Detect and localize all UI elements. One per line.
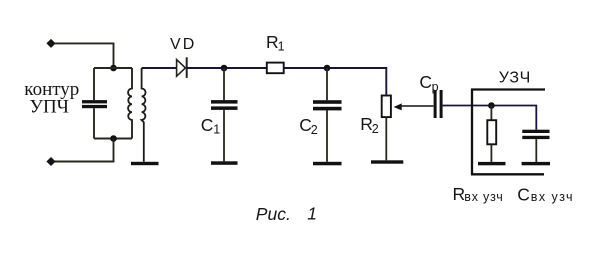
wire tank loop left upper: [93, 68, 95, 100]
svg-text:УЗЧ: УЗЧ: [499, 70, 532, 87]
node A junction dot: [110, 65, 117, 72]
wire R1 to corner and down to R2: [284, 68, 387, 96]
capacitor Cвх узч: [522, 130, 549, 139]
svg-text:2: 2: [311, 123, 318, 137]
capacitor tank (контур УПЧ): [82, 100, 107, 108]
wire node B to bottom terminal: [55, 139, 114, 162]
terminal input top: [46, 39, 55, 48]
svg-text:вх узч: вх узч: [531, 190, 574, 204]
ground bar C2: [313, 162, 342, 166]
resistor R1: [267, 63, 284, 74]
wire input top to node A: [55, 43, 114, 66]
svg-text:УПЧ: УПЧ: [30, 97, 70, 118]
svg-text:VD: VD: [170, 36, 196, 53]
node C1-top junction dot: [221, 65, 228, 72]
svg-text:р: р: [432, 80, 439, 94]
ground bar secondary: [131, 162, 159, 165]
svg-text:вх узч: вх узч: [464, 190, 503, 204]
svg-text:1: 1: [213, 123, 220, 137]
capacitor Cp plates: [434, 90, 443, 118]
wire diode to R1: [187, 67, 267, 69]
capacitor C1: [211, 100, 238, 110]
diode VD triangle: [177, 60, 186, 77]
svg-text:1: 1: [307, 203, 317, 223]
inductor primary winding: [128, 68, 132, 139]
ground bar C1: [211, 161, 238, 165]
svg-text:R: R: [453, 184, 466, 204]
svg-text:Рис.: Рис.: [256, 204, 291, 224]
wire tank loop top: [94, 67, 132, 69]
wire tank loop bottom: [94, 138, 132, 140]
terminal input bottom: [46, 157, 55, 166]
block УЗЧ box: [472, 90, 545, 175]
potentiometer wiper arrow: [401, 105, 433, 107]
wire C2 stem lower: [326, 110, 328, 161]
wire tank loop left lower: [93, 108, 95, 138]
inductor secondary winding: [142, 68, 146, 162]
resistor Rвх узч: [487, 120, 496, 144]
wire C2 stem upper: [326, 68, 328, 100]
svg-text:C: C: [201, 115, 214, 135]
wire C1 stem lower: [223, 110, 225, 161]
wire Rвх stem upper: [490, 106, 492, 121]
capacitor C2: [313, 100, 342, 110]
node C2-top junction dot: [324, 65, 331, 72]
svg-text:2: 2: [372, 122, 379, 136]
svg-text:1: 1: [278, 40, 285, 54]
wire secondary to diode anode: [142, 67, 177, 69]
diode VD cathode bar: [186, 57, 188, 78]
wire Cвх stem lower: [535, 139, 537, 162]
node B junction dot: [110, 135, 117, 142]
wire R2 stem lower: [385, 117, 387, 160]
svg-text:С: С: [517, 184, 530, 204]
resistor R2 (potentiometer): [382, 96, 391, 118]
node input junction dot: [488, 102, 495, 109]
wire Cp to input node of УЗЧ: [443, 106, 537, 130]
wire Rвх stem lower: [490, 144, 492, 162]
ground bar Rвх: [478, 162, 506, 165]
ground bar Cвх: [522, 162, 550, 165]
wire C1 stem upper: [223, 68, 225, 100]
ground bar R2: [371, 160, 403, 163]
svg-text:C: C: [419, 72, 432, 92]
